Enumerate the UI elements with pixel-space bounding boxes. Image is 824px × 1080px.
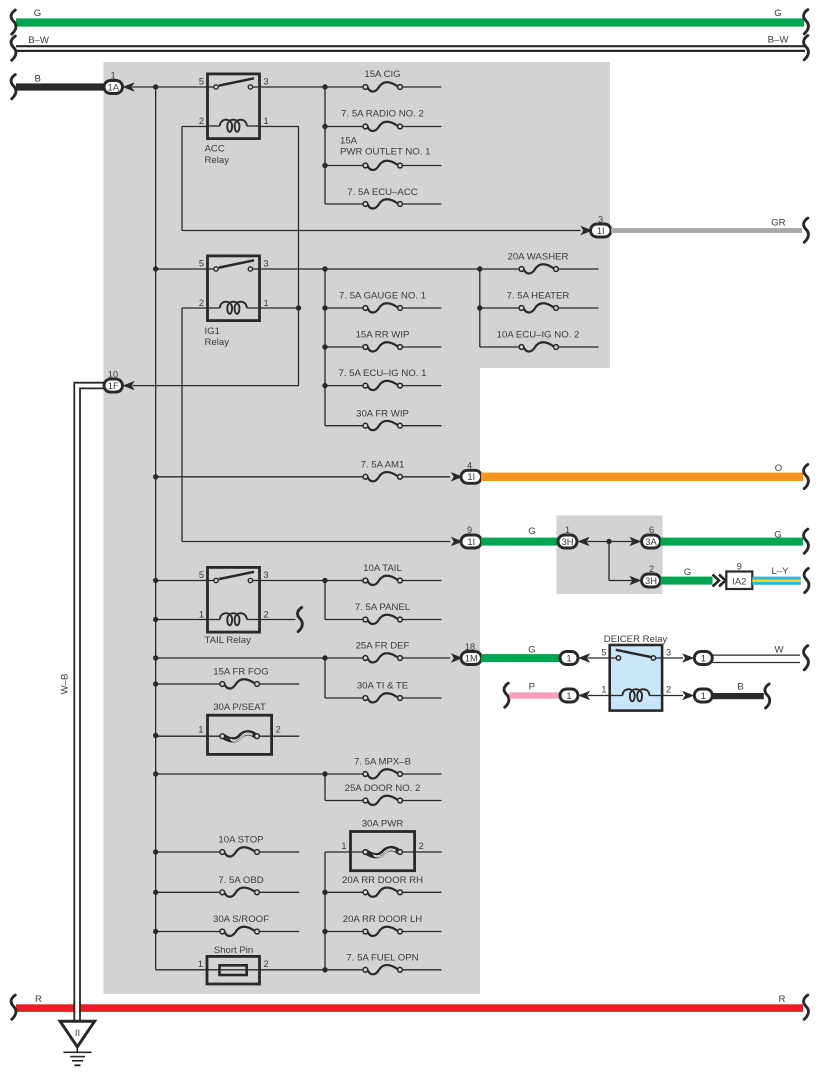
wire deicer pin3 out xyxy=(662,657,683,659)
connector 1F xyxy=(104,379,123,392)
svg-text:W: W xyxy=(774,645,784,656)
svg-text:7. 5A MPX–B: 7. 5A MPX–B xyxy=(354,756,411,767)
junction dot bus S/ROOF xyxy=(153,929,158,934)
svg-text:Short Pin: Short Pin xyxy=(214,945,253,956)
svg-text:1: 1 xyxy=(198,725,203,735)
relay ACC xyxy=(208,74,260,139)
svg-text:2: 2 xyxy=(276,725,281,735)
arrow at 1F xyxy=(123,381,135,390)
wire ACC fuse bus vertical xyxy=(324,87,326,204)
chevrons to IA2 xyxy=(713,575,726,587)
connector 1I (O) xyxy=(461,470,482,483)
svg-text:9: 9 xyxy=(737,562,742,572)
junction dot bus STOP xyxy=(153,849,158,854)
svg-text:R: R xyxy=(35,994,42,1005)
junction dot PWR OUTLET xyxy=(322,163,327,168)
svg-text:7. 5A OBD: 7. 5A OBD xyxy=(218,875,263,886)
wire to deicer pin1 xyxy=(588,695,610,697)
brace B-W right xyxy=(804,36,809,60)
deicer switch contacts xyxy=(610,657,617,659)
arrow deicer sw in xyxy=(578,653,590,662)
svg-text:2: 2 xyxy=(264,959,269,969)
svg-text:1: 1 xyxy=(199,609,204,619)
junction dot bus OBD xyxy=(153,890,158,895)
wire junction to 3A xyxy=(609,541,632,543)
wire 1F to relay coils xyxy=(133,385,299,387)
arrow at 3H pin2 xyxy=(629,576,641,585)
svg-text:3A: 3A xyxy=(645,536,657,547)
svg-text:1I: 1I xyxy=(467,471,475,482)
break squiggle TAIL pin2 xyxy=(297,607,302,631)
svg-text:10A STOP: 10A STOP xyxy=(218,835,263,846)
svg-text:3H: 3H xyxy=(562,536,574,547)
fuse 10A TAIL xyxy=(360,563,442,585)
arrow at 3A pin6 xyxy=(629,537,641,546)
svg-text:20A RR DOOR RH: 20A RR DOOR RH xyxy=(342,875,423,886)
svg-text:3: 3 xyxy=(264,76,269,86)
svg-text:5: 5 xyxy=(199,258,204,268)
fuse 15A FR FOG xyxy=(156,666,300,688)
fuse 30A TI & TE xyxy=(325,681,442,703)
arrow at 1M xyxy=(451,653,463,662)
junction dot bus FR FOG xyxy=(153,681,158,686)
junction dot bus FR DEF xyxy=(153,655,158,660)
svg-text:10A TAIL: 10A TAIL xyxy=(363,563,402,574)
circuit breaker 30A P/SEAT xyxy=(156,715,300,754)
wire deicer pin2 out xyxy=(662,695,683,697)
svg-text:3: 3 xyxy=(264,570,269,580)
svg-text:IG1: IG1 xyxy=(205,326,220,337)
fuse 15A CIG xyxy=(325,69,442,91)
fuse 7.5A PANEL xyxy=(325,602,442,624)
svg-text:1I: 1I xyxy=(597,225,605,236)
wire B (black feed) xyxy=(16,83,104,90)
deicer coil xyxy=(610,695,623,697)
svg-text:ACC: ACC xyxy=(205,144,225,155)
svg-text:3H: 3H xyxy=(645,575,657,586)
junction dot fuse bus FR DEF xyxy=(322,655,327,660)
svg-text:7. 5A FUEL OPN: 7. 5A FUEL OPN xyxy=(346,952,418,963)
fuse 15A RR WIP xyxy=(325,330,442,352)
wire 1A to ACC relay pin 5 xyxy=(133,86,208,88)
brace P left xyxy=(504,683,509,707)
svg-text:R: R xyxy=(779,994,786,1005)
arrow deicer coil in xyxy=(578,691,590,700)
junction dot main bus top xyxy=(153,84,158,89)
svg-text:25A FR DEF: 25A FR DEF xyxy=(356,641,410,652)
svg-text:2: 2 xyxy=(264,609,269,619)
svg-text:PWR OUTLET NO. 1: PWR OUTLET NO. 1 xyxy=(340,146,430,157)
svg-text:P: P xyxy=(529,682,535,693)
svg-text:1A: 1A xyxy=(108,81,120,92)
wire MPX bus vertical xyxy=(324,774,326,801)
svg-text:7. 5A HEATER: 7. 5A HEATER xyxy=(507,291,570,302)
junction dot RADIO xyxy=(322,124,327,129)
svg-text:9: 9 xyxy=(467,525,472,535)
svg-text:G: G xyxy=(774,8,781,19)
fuse 7.5A MPX-B xyxy=(156,756,442,778)
fuse 7.5A RADIO NO. 2 xyxy=(325,109,442,131)
svg-text:1: 1 xyxy=(566,652,571,663)
fuse box panel (lower) xyxy=(104,368,481,994)
brace R right xyxy=(804,995,809,1019)
connector 1A xyxy=(104,81,123,94)
svg-text:30A S/ROOF: 30A S/ROOF xyxy=(213,914,269,925)
arrow at 3H pin1 xyxy=(578,537,590,546)
wire IG1 pin1 stub xyxy=(260,307,299,309)
svg-text:15A: 15A xyxy=(340,136,358,147)
connector 1M xyxy=(461,652,482,665)
wire PWR bus vertical xyxy=(324,852,326,970)
wire bus to IG1 pin5 xyxy=(156,268,208,270)
svg-text:20A WASHER: 20A WASHER xyxy=(508,252,569,263)
junction dot bus TAIL coil xyxy=(153,617,158,622)
wire TAIL pin2 stub xyxy=(260,619,296,621)
junction dot RR DOOR LH xyxy=(322,929,327,934)
wire bus to TAIL pin1 xyxy=(156,619,208,621)
brace L-Y right xyxy=(804,568,809,592)
fuse 30A FR WIP xyxy=(325,408,442,430)
fuse 10A STOP xyxy=(156,835,300,857)
wire R bus (red) xyxy=(16,1004,803,1012)
brace B-W left xyxy=(11,36,16,60)
fuse 7.5A OBD xyxy=(156,875,300,897)
wire IG1 pin2 stub xyxy=(182,307,208,309)
fuse 7.5A FUEL OPN xyxy=(325,952,442,974)
junction dot fuse bus MPX xyxy=(322,771,327,776)
junction dot IG1 pin1 xyxy=(296,305,301,310)
svg-text:DEICER Relay: DEICER Relay xyxy=(604,634,668,645)
junction dot bus IG1 xyxy=(153,266,158,271)
junction dot fuse bus CIG xyxy=(322,84,327,89)
svg-text:Relay: Relay xyxy=(205,337,230,348)
fuse 7.5A ECU-IG NO. 1 xyxy=(325,368,442,390)
arrow deicer sw out xyxy=(682,653,694,662)
brace B left xyxy=(11,75,16,99)
svg-text:O: O xyxy=(775,463,782,474)
fuse 25A DOOR NO. 2 xyxy=(325,783,442,805)
arrow deicer coil out xyxy=(682,691,694,700)
fuse 30A S/ROOF xyxy=(156,914,300,936)
fuse 25A FR DEF xyxy=(156,641,450,663)
arrow at 1I pin9 xyxy=(451,537,463,546)
svg-text:II: II xyxy=(75,1027,80,1038)
brace GR right xyxy=(804,218,809,242)
svg-text:1: 1 xyxy=(264,116,269,126)
wire washer bus vertical xyxy=(479,269,481,347)
svg-text:1: 1 xyxy=(110,70,115,80)
wire ACC pin3 to fuse bus xyxy=(260,86,326,88)
wire ACC pin2 stub xyxy=(182,126,208,128)
svg-text:7. 5A GAUGE NO. 1: 7. 5A GAUGE NO. 1 xyxy=(339,291,426,302)
connector 1 (deicer sw out) xyxy=(694,652,712,665)
svg-text:7. 5A ECU–ACC: 7. 5A ECU–ACC xyxy=(347,187,417,198)
brace B deicer right xyxy=(765,684,770,708)
wire B-W bus (double line) xyxy=(16,45,805,47)
wire B deicer (black) xyxy=(712,693,764,699)
junction dot 3H split xyxy=(606,539,611,544)
junction dot RR WIP xyxy=(322,344,327,349)
junction dot RR DOOR RH xyxy=(322,890,327,895)
svg-text:2: 2 xyxy=(199,298,204,308)
svg-text:30A TI & TE: 30A TI & TE xyxy=(357,681,408,692)
connector IA2 xyxy=(726,572,752,590)
svg-text:7. 5A PANEL: 7. 5A PANEL xyxy=(355,602,411,613)
wire GR (gray) xyxy=(611,228,802,233)
svg-text:W–B: W–B xyxy=(60,674,71,695)
svg-text:1: 1 xyxy=(701,690,706,701)
wire to deicer pin5 xyxy=(588,657,610,659)
wire TAIL pin3 to fuse xyxy=(260,580,364,582)
svg-text:1: 1 xyxy=(341,841,346,851)
svg-text:30A PWR: 30A PWR xyxy=(362,818,404,829)
svg-text:3: 3 xyxy=(264,258,269,268)
svg-text:2: 2 xyxy=(419,841,424,851)
brace G left xyxy=(11,10,16,34)
wire W (double line) xyxy=(712,654,800,656)
svg-text:1: 1 xyxy=(198,959,203,969)
fuse 7.5A HEATER xyxy=(480,291,599,313)
svg-text:5: 5 xyxy=(601,648,606,658)
svg-text:B–W: B–W xyxy=(28,35,50,46)
wire ACC pin1 vertical xyxy=(298,127,300,386)
svg-text:2: 2 xyxy=(199,116,204,126)
junction dot fuse bus TAIL xyxy=(322,578,327,583)
junction dot HEATER xyxy=(477,305,482,310)
wire short pin to fuse bus xyxy=(260,969,326,971)
circuit breaker 30A PWR xyxy=(325,832,442,871)
svg-text:15A CIG: 15A CIG xyxy=(364,69,400,80)
fuse 7.5A AM1 xyxy=(156,459,450,481)
junction dot GAUGE xyxy=(322,305,327,310)
svg-text:6: 6 xyxy=(649,525,654,535)
svg-text:2: 2 xyxy=(649,564,654,574)
connector 1I (G) xyxy=(461,535,482,548)
wire W-B (double line) xyxy=(74,383,104,1022)
brace G row12 right xyxy=(804,529,809,553)
wire IG1 pin3 to washer bus xyxy=(260,268,480,270)
ground II xyxy=(60,1021,95,1047)
wire L-Y xyxy=(752,577,801,585)
connector 1I (GR) xyxy=(591,224,612,237)
svg-text:G: G xyxy=(528,526,535,537)
junction dot washer bus xyxy=(477,266,482,271)
wire junction to 3H pin2 xyxy=(609,580,632,582)
wire TAIL fuse bus vertical xyxy=(324,581,326,620)
svg-text:1: 1 xyxy=(264,298,269,308)
fuse 10A ECU-IG NO. 2 xyxy=(480,330,599,352)
svg-text:TAIL Relay: TAIL Relay xyxy=(205,635,252,646)
wire bus to TAIL pin5 xyxy=(156,580,208,582)
wire IG1 pin2 vertical xyxy=(181,308,183,542)
connector 3H pin2 xyxy=(642,574,661,587)
wire O (orange) xyxy=(481,473,803,481)
fuse box panel (upper) xyxy=(104,62,611,368)
wire FR DEF bus vertical xyxy=(324,658,326,698)
wire G to 3H (green) xyxy=(481,538,558,546)
svg-text:1I: 1I xyxy=(467,536,475,547)
junction dot bus P/SEAT xyxy=(153,733,158,738)
junction dot FUEL OPN xyxy=(322,967,327,972)
svg-text:1: 1 xyxy=(701,652,706,663)
svg-text:5: 5 xyxy=(199,76,204,86)
connector 1 (deicer coil out) xyxy=(694,689,712,702)
svg-text:7. 5A RADIO NO. 2: 7. 5A RADIO NO. 2 xyxy=(341,109,424,120)
brace R left xyxy=(11,995,16,1019)
relay TAIL xyxy=(208,567,260,632)
relay DEICER box xyxy=(610,645,662,711)
svg-text:IA2: IA2 xyxy=(732,575,746,586)
svg-text:15A FR FOG: 15A FR FOG xyxy=(213,666,268,677)
connector 3A xyxy=(642,535,661,548)
svg-text:G: G xyxy=(528,644,535,655)
wire ACC coil to 1I pin 3 xyxy=(182,230,581,232)
wire 3H junction vertical xyxy=(608,542,610,581)
relay IG1 xyxy=(208,256,260,321)
junction dot ECU-IG1 xyxy=(322,383,327,388)
component Short Pin xyxy=(207,956,260,984)
svg-text:B–W: B–W xyxy=(768,35,790,46)
wire ACC pin2 vertical xyxy=(181,127,183,231)
wire IG1 fuse bus vertical xyxy=(324,269,326,426)
wire G out (green) xyxy=(661,538,804,546)
brace W right xyxy=(804,646,809,670)
svg-text:G: G xyxy=(774,530,781,541)
svg-text:7. 5A AM1: 7. 5A AM1 xyxy=(361,459,405,470)
svg-text:2: 2 xyxy=(666,685,671,695)
wire G to IA2 (green) xyxy=(661,577,713,585)
wire ACC pin1 stub xyxy=(260,126,299,128)
wire W-B crossing red xyxy=(75,1003,79,1012)
fuse 15A PWR OUTLET NO. 1 xyxy=(325,136,442,171)
arrow at 1I pin3 xyxy=(580,226,592,235)
wire 3H to junction xyxy=(588,541,610,543)
svg-text:30A FR WIP: 30A FR WIP xyxy=(356,408,409,419)
connector 1 (deicer coil in) xyxy=(560,689,578,702)
svg-text:B: B xyxy=(737,682,743,693)
fuse 20A RR DOOR LH xyxy=(325,914,442,936)
svg-text:5: 5 xyxy=(199,570,204,580)
svg-text:G: G xyxy=(684,567,691,578)
arrow at 1A xyxy=(123,82,135,91)
fuse 20A RR DOOR RH xyxy=(325,875,442,897)
svg-text:Relay: Relay xyxy=(205,155,230,166)
svg-text:3: 3 xyxy=(666,648,671,658)
svg-text:B: B xyxy=(34,73,40,84)
svg-text:10A ECU–IG NO. 2: 10A ECU–IG NO. 2 xyxy=(497,330,580,341)
svg-text:4: 4 xyxy=(467,460,472,470)
svg-text:25A DOOR NO. 2: 25A DOOR NO. 2 xyxy=(345,783,421,794)
fuse 7.5A GAUGE NO. 1 xyxy=(325,291,442,313)
junction dot bus MPX-B xyxy=(153,771,158,776)
svg-text:GR: GR xyxy=(771,217,785,228)
junction dot fuse bus IG1 xyxy=(322,266,327,271)
fuse 7.5A ECU-ACC xyxy=(325,187,442,209)
junction dot bus AM1 xyxy=(153,474,158,479)
svg-text:1: 1 xyxy=(566,690,571,701)
svg-text:15A RR WIP: 15A RR WIP xyxy=(356,330,410,341)
svg-text:L–Y: L–Y xyxy=(771,566,789,577)
connector 3H pin1 xyxy=(558,535,577,548)
arrow at 1I pin4 xyxy=(451,472,463,481)
svg-text:7. 5A ECU–IG NO. 1: 7. 5A ECU–IG NO. 1 xyxy=(339,368,427,379)
svg-text:G: G xyxy=(34,8,41,19)
fuse 20A WASHER xyxy=(480,252,599,274)
junction dot bus TAIL sw xyxy=(153,578,158,583)
svg-text:1F: 1F xyxy=(108,380,119,391)
connector 1 (deicer sw in) xyxy=(560,652,578,665)
brace G right xyxy=(804,10,809,34)
svg-text:20A RR DOOR LH: 20A RR DOOR LH xyxy=(343,914,423,925)
wire P (pink) xyxy=(510,692,559,698)
svg-text:1: 1 xyxy=(601,685,606,695)
svg-text:1: 1 xyxy=(565,525,570,535)
wire G to deicer (green) xyxy=(481,654,560,662)
svg-text:1M: 1M xyxy=(465,652,478,663)
brace O right xyxy=(804,464,809,488)
svg-text:30A P/SEAT: 30A P/SEAT xyxy=(213,702,266,713)
wire main left bus (vertical) xyxy=(155,87,157,970)
wire G bus (green) xyxy=(16,18,804,26)
junction block panel 3H/3A xyxy=(557,516,663,595)
wire IG1 coil to 1I pin 9 xyxy=(182,541,450,543)
